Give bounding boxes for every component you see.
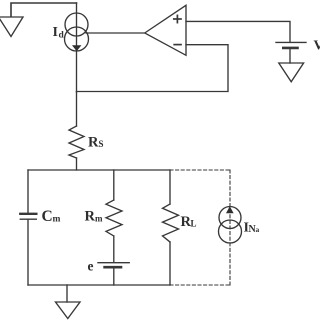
wire (27, 220, 29, 285)
svg-text:R: R (85, 209, 96, 225)
wire dashed right (229, 170, 231, 285)
wire top bus (28, 169, 170, 171)
ground (56, 302, 81, 319)
wire dashed bottom (170, 284, 230, 286)
ground (0, 17, 23, 37)
current source Id (65, 13, 89, 51)
capacitor Cm (20, 214, 36, 219)
svg-text:e: e (88, 259, 94, 274)
wire feedback (77, 45, 229, 92)
label Rm (85, 209, 104, 225)
battery e (98, 263, 129, 268)
label RL (181, 214, 197, 230)
svg-text:I: I (53, 25, 58, 40)
op-amp U1 (145, 5, 186, 55)
wire (76, 92, 78, 126)
resistor Rm (106, 200, 122, 236)
wire dashed top (170, 169, 230, 171)
wire bottom bus (28, 284, 170, 286)
wire (86, 32, 145, 34)
wire (169, 170, 171, 204)
svg-text:a: a (256, 225, 260, 234)
svg-text:S: S (99, 139, 104, 149)
svg-text:L: L (191, 219, 197, 229)
wire (76, 3, 78, 92)
battery V (276, 42, 306, 48)
current source IN (219, 206, 242, 243)
wire (76, 158, 78, 170)
pin - (174, 44, 181, 46)
svg-text:m: m (95, 213, 103, 223)
wire (169, 242, 171, 285)
pin + (174, 15, 181, 22)
wire (113, 236, 115, 262)
resistor RL (163, 204, 179, 242)
wire (11, 3, 77, 17)
wire (186, 21, 290, 42)
label RS (88, 135, 104, 151)
svg-text:V: V (314, 39, 320, 54)
label Cm (42, 208, 61, 225)
wire (113, 268, 115, 285)
label IN (244, 221, 260, 236)
svg-text:R: R (88, 135, 99, 151)
svg-text:C: C (42, 208, 53, 225)
wire (27, 170, 29, 213)
wire (289, 49, 291, 63)
wire (113, 170, 115, 200)
label Id (53, 25, 65, 41)
svg-text:m: m (53, 215, 61, 225)
resistor RS (69, 126, 84, 158)
svg-text:d: d (59, 31, 65, 41)
wire (66, 285, 68, 302)
ground (279, 63, 304, 82)
